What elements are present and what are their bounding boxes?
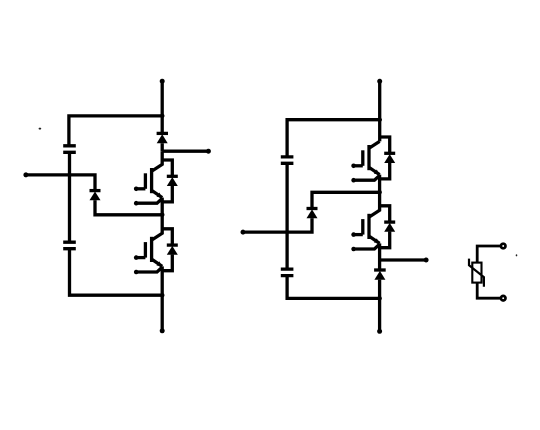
wire: thermistor bottom lead: [477, 283, 500, 299]
wire: clamp diode to midpoint node: [95, 200, 162, 215]
node: phase midpoint module1: [160, 213, 165, 218]
wire: C4 to bottom rail module2: [287, 276, 380, 299]
wire: bottom rail module2: [378, 298, 381, 331]
capacitor C3: [281, 157, 294, 163]
capacitor C4: [281, 269, 294, 276]
wire: neutral terminal to clamp diode: [26, 175, 95, 191]
terminal: module1 collector tap: [206, 149, 211, 154]
diode D5 (clamp, module2): [307, 209, 318, 219]
wire: top rail module2: [378, 81, 381, 141]
node: gate terminal Q1: [134, 187, 139, 192]
diode D8 (series bottom, module2): [374, 270, 386, 280]
diode D2 (series top, module1): [157, 133, 168, 143]
node: aux emitter terminal Q3: [351, 178, 356, 183]
diode D1 (clamp, module1): [90, 191, 101, 201]
transistor Q1 (IGBT, module1 upper): [136, 151, 162, 203]
wire: C2 to bottom rail module1: [70, 249, 163, 296]
diode D3 (freewheel for Q1): [162, 160, 178, 202]
terminal: module2 neutral (left): [241, 230, 246, 235]
wire: bottom rail module1: [161, 295, 164, 331]
node: capacitor midpoint module1: [68, 173, 72, 177]
node: DC- junction module1: [160, 293, 165, 298]
terminal: module1 neutral (left): [23, 172, 28, 177]
terminal: module2 DC+ top: [377, 79, 382, 84]
node: aux emitter terminal Q4: [351, 247, 356, 252]
terminal: thermistor bottom (open circle): [501, 296, 506, 301]
wire: D2 cathode to Q1 collector node: [161, 143, 164, 151]
thermistor RT1 strike mark: [469, 259, 484, 287]
terminal: thermistor top (open circle): [501, 244, 506, 249]
wire: C3 to midpoint module2: [285, 163, 288, 269]
wire: collector tap to terminal module1: [162, 150, 208, 153]
wire: neutral terminal to clamp diode module2: [243, 218, 312, 232]
transistor Q4 (IGBT, module2 lower): [354, 192, 380, 249]
node: aux emitter terminal Q1: [134, 201, 139, 206]
transistor Q2 (IGBT, module1 lower): [136, 215, 162, 272]
node: gate terminal Q3: [351, 164, 356, 169]
stray speck left: [39, 128, 42, 130]
transistor Q3 (IGBT, module2 upper): [354, 141, 380, 180]
wire: D8 anode to bottom node module2: [378, 280, 381, 299]
terminal: module1 DC- bottom: [160, 328, 165, 333]
wire: capacitor chain bottom return module1: [68, 175, 71, 242]
node: gate terminal Q2: [134, 255, 139, 260]
node: aux emitter terminal Q2: [134, 270, 139, 275]
wire: Q2 emitter to bottom node: [161, 266, 164, 295]
terminal: module2 emitter tap: [424, 258, 429, 263]
wire: branch to capacitor chain module2: [287, 120, 380, 157]
node: DC+ branch junction module2: [377, 117, 382, 122]
node: phase midpoint module2: [377, 190, 382, 195]
diode D4 (freewheel for Q2): [162, 229, 178, 271]
wire: Q3 emitter to midpoint module2: [378, 175, 381, 193]
wire: Q4 emitter down to series diode: [378, 243, 381, 270]
wire: thermistor top lead: [477, 246, 500, 263]
diode D6 (freewheel for Q3): [380, 137, 396, 179]
wire: emitter tap to terminal module2: [380, 258, 427, 261]
diode D7 (freewheel for Q4): [380, 206, 396, 248]
wire: top rail module1: [161, 81, 164, 133]
thermistor RT1 body: [472, 263, 481, 283]
capacitor C1: [63, 146, 76, 153]
terminal: module2 DC- bottom: [377, 329, 382, 334]
node: DC+ branch junction module1: [160, 114, 165, 119]
capacitor C2: [63, 242, 76, 249]
node: DC- junction module2: [377, 296, 382, 301]
wire: C1 to midpoint: [68, 152, 71, 175]
wire: clamp diode to phase midpoint module2: [312, 192, 380, 208]
node: gate terminal Q4: [351, 232, 356, 237]
wire: Q1 emitter to midpoint: [161, 198, 164, 215]
stray speck right: [516, 254, 518, 256]
wire: branch to capacitor chain module1: [69, 116, 162, 146]
terminal: module1 DC+ top: [160, 79, 165, 84]
